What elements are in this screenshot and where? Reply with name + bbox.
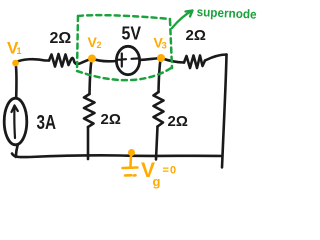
- ground symbol: [123, 156, 138, 176]
- wire right side vertical: [222, 55, 227, 168]
- wire resistor to top-right corner: [205, 55, 227, 61]
- wire voltage source to node V3: [140, 58, 161, 60]
- supernode boundary (green dashed box): [77, 15, 172, 80]
- svg-text:2Ω: 2Ω: [186, 27, 206, 44]
- svg-text:supernode: supernode: [196, 5, 257, 22]
- wire node V3 to resistor (top-right): [161, 58, 184, 63]
- wire current source to bottom rail: [16, 145, 18, 158]
- resistor 2Ω middle vertical: [84, 94, 95, 127]
- wire resistor to bottom rail (right-middle): [156, 127, 158, 160]
- wire node V1 to resistor (top-left): [16, 59, 50, 62]
- svg-text:2Ω: 2Ω: [168, 113, 188, 130]
- svg-text:=: =: [163, 165, 169, 177]
- wire resistor to bottom rail (middle): [87, 127, 90, 159]
- current source I1 3A (ellipse): [4, 98, 27, 145]
- ground node (dot): [128, 149, 135, 156]
- voltage source U1 5V (circle): [116, 46, 139, 74]
- svg-text:0: 0: [170, 165, 176, 177]
- wire node V1 down to current source: [16, 63, 17, 98]
- svg-text:2: 2: [97, 40, 102, 50]
- svg-text:3A: 3A: [37, 112, 57, 134]
- svg-text:3: 3: [162, 41, 167, 52]
- resistor 2Ω top-right: [184, 56, 205, 69]
- svg-text:2Ω: 2Ω: [50, 30, 72, 47]
- node V1 (dot): [12, 60, 19, 67]
- wire resistor to node V2: [71, 58, 93, 64]
- supernode annotation arrow: [172, 11, 193, 29]
- resistor 2Ω right-middle vertical: [154, 92, 164, 127]
- voltage source minus terminal: [132, 57, 138, 59]
- current source arrow: [12, 106, 18, 139]
- node V3 (dot): [157, 54, 165, 62]
- wire node V2 down to resistor: [90, 60, 92, 94]
- wire bottom rail: [12, 154, 222, 158]
- svg-text:g: g: [153, 174, 161, 189]
- wire node V2 to voltage source: [92, 59, 117, 62]
- resistor 2Ω top-left: [49, 54, 71, 67]
- voltage source plus terminal: [118, 54, 127, 67]
- svg-text:5V: 5V: [122, 24, 142, 44]
- node V2 (dot): [88, 55, 96, 63]
- svg-text:2Ω: 2Ω: [101, 111, 121, 128]
- svg-text:1: 1: [17, 46, 22, 56]
- wire node V3 down to resistor: [159, 60, 161, 93]
